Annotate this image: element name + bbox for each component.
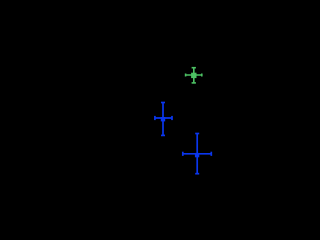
wire: P3 horizontal error bar [183,153,212,155]
node: P2 right cap [171,116,173,120]
node: P3 bottom cap [195,173,199,175]
node: P1 square marker [191,73,196,78]
wire: P1 horizontal error bar [186,74,202,76]
blue errorbar point P3 [183,134,212,174]
node: P1 left cap [185,74,187,77]
node: P2 bottom cap [161,134,165,136]
wire: P3 vertical error bar [196,134,198,174]
green errorbar point P1 [186,68,202,83]
node: P2 top cap [161,102,165,104]
node: P2 left cap [154,116,156,120]
node: P1 top cap [192,67,196,69]
node: P1 right cap [201,74,203,77]
wire: P1 vertical error bar [193,68,195,83]
wire: P2 vertical error bar [162,103,164,136]
node: P2 square marker [161,117,165,121]
node: P3 left cap [182,152,184,156]
node: P3 square marker [195,153,199,157]
wire: P2 horizontal error bar [155,117,172,119]
node: P3 top cap [195,133,199,135]
blue errorbar point P2 [155,103,172,136]
node: P3 right cap [210,152,212,156]
node: P1 bottom cap [192,82,196,84]
